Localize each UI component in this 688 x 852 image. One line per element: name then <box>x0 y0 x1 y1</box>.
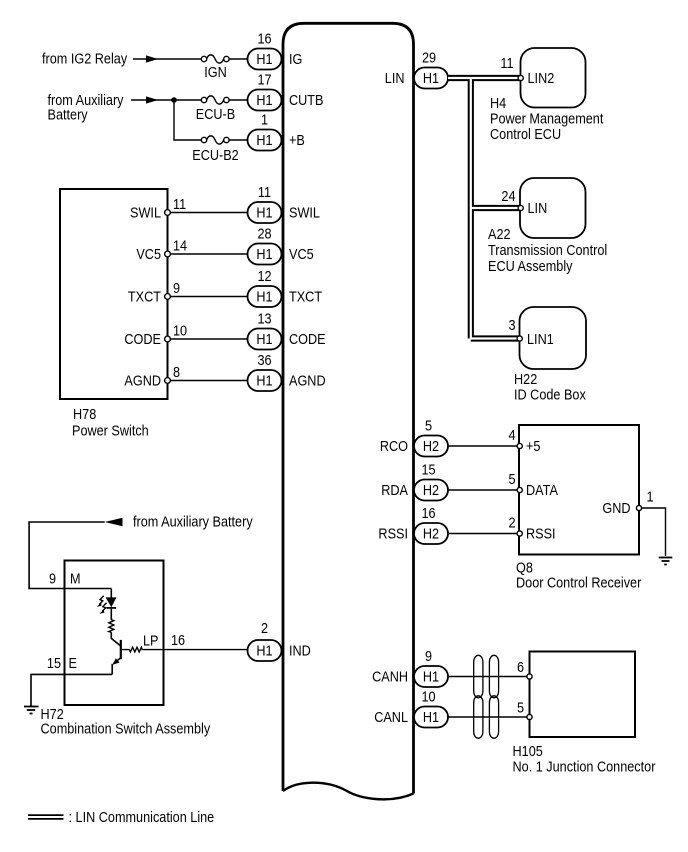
svg-text:1: 1 <box>261 112 268 128</box>
wire VC5 <box>170 253 247 255</box>
svg-text:IG: IG <box>289 51 302 67</box>
arrow flow right <box>146 96 158 103</box>
junction connector H105 box <box>530 652 636 738</box>
Q8 pin 1 (GND) <box>636 505 641 510</box>
svg-text:ID Code Box: ID Code Box <box>514 387 586 403</box>
svg-text:13: 13 <box>257 311 271 327</box>
svg-text:AGND: AGND <box>289 373 326 389</box>
Q8 pin 4 (+5) <box>517 443 522 448</box>
svg-text:GND: GND <box>602 500 630 516</box>
combination switch assembly H72 box <box>65 561 164 706</box>
svg-text:from Auxiliary Battery: from Auxiliary Battery <box>133 514 253 530</box>
wire CUTB row <box>131 99 248 101</box>
wire SWIL <box>170 212 247 214</box>
svg-text:H2: H2 <box>423 482 439 498</box>
svg-text:Door Control Receiver: Door Control Receiver <box>516 575 642 591</box>
fuse ECU-B2 <box>192 136 238 163</box>
connector H1 pin 12 (TXCT) <box>248 268 282 307</box>
svg-text:M: M <box>70 571 81 587</box>
H78 pin 14 (VC5) <box>165 251 171 257</box>
svg-text:A22: A22 <box>488 226 511 242</box>
svg-text:28: 28 <box>257 226 271 242</box>
svg-text:H2: H2 <box>423 526 439 542</box>
ID code box H22 <box>520 307 587 369</box>
connector H1 pin 2 (IND) <box>248 620 282 661</box>
connector H1 pin 16 (IG) <box>248 31 282 70</box>
svg-text:RCO: RCO <box>380 438 408 454</box>
ground (H72) <box>24 707 39 714</box>
svg-text:15: 15 <box>47 655 61 671</box>
svg-text:LIN1: LIN1 <box>527 331 554 347</box>
svg-text:TXCT: TXCT <box>128 289 161 305</box>
svg-text:11: 11 <box>173 196 186 212</box>
svg-text:12: 12 <box>257 268 271 284</box>
svg-text:5: 5 <box>508 471 515 487</box>
svg-text:: LIN Communication Line: : LIN Communication Line <box>69 809 215 825</box>
svg-text:LP: LP <box>143 633 159 649</box>
wire battery to M <box>29 522 111 589</box>
svg-text:LIN: LIN <box>385 70 405 86</box>
svg-text:H1: H1 <box>256 205 272 221</box>
wire +B branch <box>174 100 248 140</box>
svg-text:16: 16 <box>257 31 271 47</box>
svg-text:Transmission Control: Transmission Control <box>488 242 607 258</box>
connector H2 pin 16 (RSSI) <box>414 505 448 544</box>
wire RSSI <box>448 533 517 535</box>
svg-text:Power Switch: Power Switch <box>72 423 149 439</box>
svg-text:DATA: DATA <box>526 482 559 498</box>
wire RDA <box>448 489 517 491</box>
svg-text:No. 1 Junction Connector: No. 1 Junction Connector <box>513 759 656 775</box>
H78 pin 8 (AGND) <box>165 378 171 384</box>
svg-text:6: 6 <box>517 659 524 675</box>
LED light arrows <box>97 596 107 614</box>
arrow flow left <box>105 518 123 526</box>
svg-text:H1: H1 <box>256 51 272 67</box>
svg-text:SWIL: SWIL <box>130 205 161 221</box>
svg-text:Battery: Battery <box>48 107 88 123</box>
svg-text:LIN2: LIN2 <box>528 70 555 86</box>
transmission control ECU A22 <box>520 178 586 238</box>
svg-text:TXCT: TXCT <box>289 289 322 305</box>
connector H1 pin 11 (SWIL) <box>248 184 282 223</box>
svg-text:from IG2 Relay: from IG2 Relay <box>42 51 127 67</box>
connector H1 pin 28 (VC5) <box>248 226 282 265</box>
svg-text:Control ECU: Control ECU <box>490 126 561 142</box>
svg-text:ECU-B: ECU-B <box>196 106 235 122</box>
H78 pin 10 (CODE) <box>165 336 171 342</box>
svg-text:VC5: VC5 <box>289 246 314 262</box>
H4 pin 11 (LIN2) <box>518 75 523 80</box>
H78 pin 11 (SWIL) <box>165 210 171 216</box>
fuse IGN <box>201 55 229 80</box>
wire AGND <box>170 380 247 382</box>
transistor Q (NPN) <box>111 632 121 674</box>
svg-text:2: 2 <box>508 515 515 531</box>
LIN communication line <box>448 75 520 339</box>
svg-text:H1: H1 <box>256 289 272 305</box>
svg-text:Combination Switch Assembly: Combination Switch Assembly <box>41 721 211 737</box>
svg-text:H1: H1 <box>256 92 272 108</box>
svg-text:2: 2 <box>261 620 268 636</box>
H22 pin 3 (LIN1) <box>517 336 522 341</box>
svg-text:5: 5 <box>425 418 432 434</box>
resistor R (vertical) <box>109 620 114 633</box>
connector H1 pin 10 (CANL) <box>414 689 448 728</box>
svg-text:9: 9 <box>49 571 56 587</box>
svg-text:IGN: IGN <box>204 64 227 80</box>
svg-text:H1: H1 <box>423 70 439 86</box>
svg-text:+B: +B <box>289 132 305 148</box>
legend: LIN communication line symbol <box>28 814 64 819</box>
svg-text:ECU-B2: ECU-B2 <box>192 147 238 163</box>
A22 pin 24 (LIN) <box>518 205 523 210</box>
svg-text:+5: +5 <box>526 438 540 454</box>
connector H1 pin 17 (CUTB) <box>248 72 282 111</box>
svg-text:29: 29 <box>422 50 436 66</box>
svg-text:H1: H1 <box>423 669 439 685</box>
connector H1 pin 13 (CODE) <box>248 311 282 350</box>
svg-text:AGND: AGND <box>124 373 161 389</box>
fuse ECU-B <box>196 96 235 122</box>
svg-text:24: 24 <box>501 188 515 204</box>
svg-text:RDA: RDA <box>381 482 409 498</box>
svg-text:16: 16 <box>171 632 185 648</box>
power management control ECU H4 <box>521 48 586 108</box>
wire RCO <box>448 445 517 447</box>
door control receiver Q8 box <box>519 425 639 555</box>
svg-text:Q8: Q8 <box>516 560 533 576</box>
connector H2 pin 5 (RCO) <box>414 418 448 457</box>
svg-text:H2: H2 <box>423 438 439 454</box>
svg-text:1: 1 <box>647 489 654 505</box>
wire CANL <box>448 716 527 718</box>
svg-text:36: 36 <box>257 352 271 368</box>
LED D (indicator lamp) <box>106 589 116 620</box>
arrow flow right <box>146 55 158 62</box>
H78 pin 9 (TXCT) <box>165 294 171 300</box>
power switch H78 box <box>60 189 168 399</box>
svg-text:CODE: CODE <box>289 331 326 347</box>
svg-text:9: 9 <box>173 280 180 296</box>
svg-text:RSSI: RSSI <box>378 526 408 542</box>
svg-text:16: 16 <box>421 505 435 521</box>
H105 pin 5 <box>527 714 532 719</box>
svg-text:11: 11 <box>258 184 271 200</box>
svg-text:5: 5 <box>517 700 524 716</box>
svg-text:H1: H1 <box>256 132 272 148</box>
svg-text:H22: H22 <box>514 371 537 387</box>
Q8 pin 5 (DATA) <box>517 487 522 492</box>
connector H1 pin 1 (+B) <box>248 112 282 151</box>
svg-text:11: 11 <box>500 55 513 71</box>
Q8 pin 2 (RSSI) <box>517 531 522 536</box>
twisted pair symbol <box>474 655 499 738</box>
connector H1 pin 36 (AGND) <box>248 352 282 391</box>
resistor R (base) and wire LP to IND <box>121 647 248 652</box>
svg-text:SWIL: SWIL <box>289 205 320 221</box>
junction node <box>171 97 177 103</box>
svg-text:10: 10 <box>421 689 435 705</box>
connector H1 pin 9 (CANH) <box>414 648 448 687</box>
svg-text:H1: H1 <box>256 643 272 659</box>
svg-text:3: 3 <box>508 317 515 333</box>
connector H1 pin 29 (LIN) <box>414 50 448 89</box>
svg-text:CUTB: CUTB <box>289 92 323 108</box>
svg-text:H1: H1 <box>256 246 272 262</box>
svg-text:10: 10 <box>173 323 187 339</box>
svg-text:IND: IND <box>289 643 311 659</box>
wire TXCT <box>170 296 247 298</box>
wire GND <box>642 508 666 556</box>
svg-text:H78: H78 <box>73 406 96 422</box>
svg-text:CANL: CANL <box>374 709 408 725</box>
H105 pin 6 <box>527 674 532 679</box>
svg-text:Power Management: Power Management <box>490 111 604 127</box>
svg-text:14: 14 <box>173 238 187 254</box>
svg-text:9: 9 <box>425 648 432 664</box>
svg-text:H1: H1 <box>256 331 272 347</box>
svg-text:H105: H105 <box>513 743 543 759</box>
wire CODE <box>170 338 247 340</box>
svg-text:CANH: CANH <box>372 669 408 685</box>
svg-text:4: 4 <box>508 427 515 443</box>
svg-text:H1: H1 <box>256 373 272 389</box>
svg-text:H1: H1 <box>423 709 439 725</box>
connector H2 pin 15 (RDA) <box>414 462 448 501</box>
wire IG row <box>133 58 248 60</box>
svg-text:15: 15 <box>421 462 435 478</box>
wire E to ground <box>31 674 112 706</box>
svg-text:CODE: CODE <box>124 331 161 347</box>
ground (Q8 GND) <box>659 558 673 565</box>
svg-text:RSSI: RSSI <box>526 526 556 542</box>
svg-text:LIN: LIN <box>528 200 548 216</box>
svg-text:H4: H4 <box>490 95 507 111</box>
wire CANH <box>448 676 527 678</box>
svg-text:E: E <box>69 655 77 671</box>
svg-text:8: 8 <box>173 364 180 380</box>
svg-text:VC5: VC5 <box>136 246 161 262</box>
svg-text:17: 17 <box>257 72 271 88</box>
svg-text:ECU Assembly: ECU Assembly <box>488 258 573 274</box>
main ECU box <box>283 23 414 799</box>
